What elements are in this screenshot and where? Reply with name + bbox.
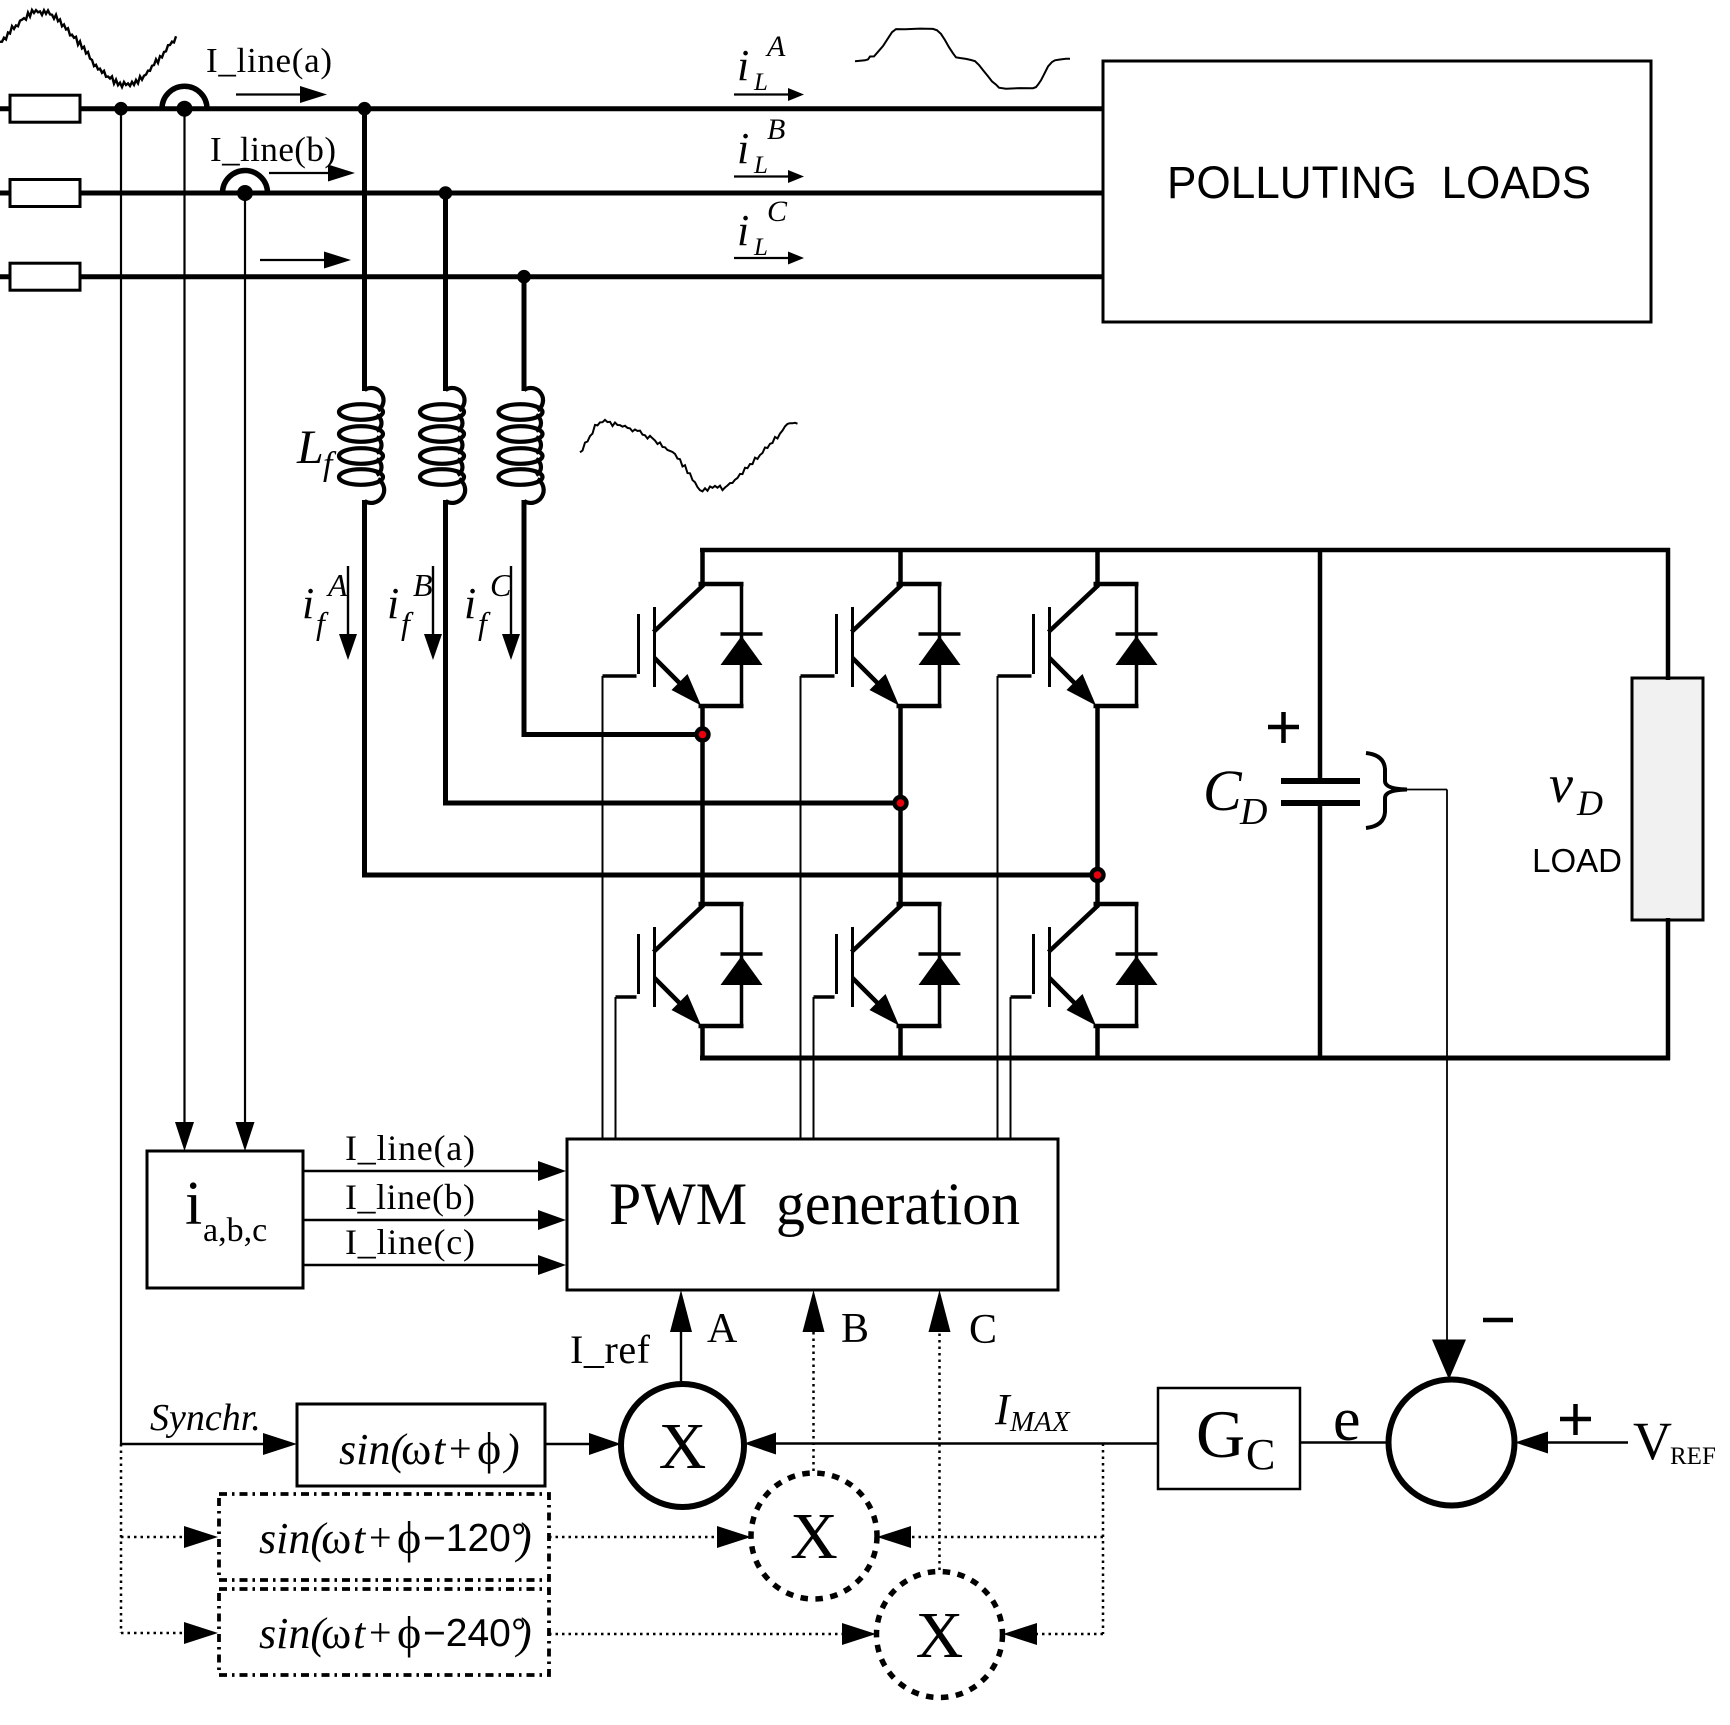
svg-text:I_line(a): I_line(a) (206, 41, 332, 80)
wire I_ref A into PWM (670, 1290, 692, 1383)
transistor IGBT Q3 (top) with antiparallel diode (1034, 584, 1158, 706)
node leg 3 midpoint (red) (1089, 867, 1105, 883)
resistor source impedance phase b (10, 180, 80, 207)
svg-text:ω: ω (321, 1607, 351, 1658)
node leg 2 midpoint (red) (892, 795, 908, 811)
svg-text:): ) (514, 1514, 532, 1563)
svg-text:A: A (707, 1306, 738, 1352)
summing junction circle (1389, 1380, 1515, 1506)
inductor Lf phase a (339, 388, 384, 503)
svg-text:t: t (353, 1514, 367, 1563)
svg-text:PWM generation: PWM generation (609, 1171, 1020, 1237)
gate wire top IGBT leg 1 (603, 674, 637, 678)
wire leg 2 middle (898, 704, 903, 906)
svg-text:L: L (296, 421, 324, 474)
label I_line(b) with arrow (210, 130, 355, 182)
block i_abc (147, 1151, 303, 1288)
resistor source impedance phase a (10, 95, 80, 122)
wire filter drop phase c (lower) (522, 500, 527, 735)
label vD (1549, 754, 1603, 823)
svg-text:ϕ: ϕ (397, 1512, 421, 1563)
svg-text:sin(: sin( (339, 1425, 407, 1474)
svg-text:I_line(a): I_line(a) (345, 1128, 475, 1168)
wire filter drop phase c (upper) (522, 277, 527, 391)
wire I_line(b) to PWM with arrow (303, 1177, 566, 1230)
wire Synchr into sin block (120, 1433, 297, 1455)
svg-text:): ) (502, 1425, 520, 1474)
wire leg 1 middle (700, 704, 705, 906)
wire synchronisation from phase a down (120, 109, 122, 1444)
svg-text:+: + (369, 1515, 392, 1560)
wire dotted synchr branch down (120, 1444, 123, 1633)
gate wire bottom IGBT leg 1 (616, 995, 637, 999)
svg-text:A: A (326, 567, 348, 603)
label plus (1560, 1404, 1591, 1435)
svg-text:i: i (302, 579, 314, 628)
wire I_line(a) to PWM with arrow (303, 1128, 566, 1181)
svg-text:i: i (464, 579, 476, 628)
svg-text:t: t (433, 1425, 447, 1474)
svg-text:i: i (185, 1170, 202, 1238)
wire leg 3 top stub (1095, 548, 1100, 586)
node leg 1 midpoint (red) (694, 726, 710, 742)
wire sin3 to multiplier X3 (dotted) (549, 1623, 876, 1645)
svg-text:D: D (1239, 791, 1267, 833)
node synchronisation tap on phase a (114, 102, 128, 116)
multiplier X3 (dotted) (877, 1572, 1003, 1698)
transistor IGBT Q6 (bottom) with antiparallel diode (1034, 904, 1158, 1026)
wire VREF into summing (1515, 1432, 1628, 1454)
transistor IGBT Q2 (top) with antiparallel diode (837, 584, 961, 706)
label i_L^B with arrow (734, 113, 804, 183)
svg-text:REF: REF (1670, 1443, 1716, 1470)
svg-text:LOAD: LOAD (1532, 842, 1622, 879)
svg-text:ω: ω (401, 1423, 431, 1474)
svg-text:D: D (1576, 783, 1603, 823)
label IMAX (994, 1385, 1071, 1438)
arrow vD into summing (minus) (1432, 1340, 1466, 1380)
inductor Lf phase b (420, 388, 465, 503)
current transformer CT on phase a (162, 86, 207, 116)
label Lf (296, 421, 337, 483)
svg-text:−120°: −120° (423, 1517, 526, 1560)
wire C into PWM (dotted) (929, 1290, 951, 1570)
block PWM generation (567, 1139, 1058, 1290)
svg-text:V: V (1633, 1411, 1672, 1471)
label + polarity (1268, 712, 1299, 743)
waveform: distorted source voltage sine (0, 10, 176, 87)
wire phase c to bridge leg 1 midpoint (522, 732, 703, 737)
svg-text:Synchr.: Synchr. (150, 1397, 261, 1439)
wire CT a to i_abc block (175, 109, 194, 1151)
svg-text:I_line(b): I_line(b) (345, 1177, 475, 1217)
svg-text:B: B (841, 1306, 869, 1352)
wire CT b to i_abc block (236, 193, 255, 1151)
transistor IGBT Q5 (bottom) with antiparallel diode (837, 904, 961, 1026)
svg-text:C: C (1246, 1430, 1275, 1479)
wire phase c line (0, 274, 1103, 279)
svg-text:X: X (659, 1410, 707, 1483)
wire leg 2 bottom stub (898, 1024, 903, 1058)
svg-text:X: X (916, 1599, 964, 1672)
svg-text:i: i (737, 41, 749, 90)
label i_f^A with arrow (302, 566, 357, 660)
svg-text:L: L (753, 69, 768, 96)
wire IMAX tap into X3 (dotted) (1003, 1623, 1103, 1645)
svg-text:X: X (790, 1500, 838, 1573)
wire sin2 to multiplier X2 (dotted) (549, 1526, 751, 1548)
svg-text:e: e (1333, 1386, 1361, 1454)
svg-text:MAX: MAX (1009, 1406, 1071, 1438)
capacitor CD branch wire (top) (1318, 550, 1323, 780)
wire I_line(c) to PWM with arrow (303, 1222, 566, 1275)
capacitor CD plates (1281, 778, 1360, 784)
wire filter drop phase b (lower) (443, 500, 448, 803)
wire e: summing to GC (1300, 1441, 1388, 1443)
label i_f^C with arrow (464, 566, 520, 660)
wire IMAX tap into X2 (dotted) (877, 1526, 1103, 1548)
wire IMAX into X1 (744, 1433, 1158, 1455)
label i_f^B with arrow (387, 566, 442, 660)
wire IMAX dotted vertical tap (1102, 1444, 1105, 1635)
inductor Lf phase c (499, 388, 544, 503)
resistor source impedance phase c (10, 263, 80, 290)
label I_line(a) with arrow (206, 41, 332, 103)
wire leg 2 top stub (898, 548, 903, 586)
wire load branch bottom (1666, 918, 1671, 1060)
multiplier X1 (621, 1384, 744, 1507)
label i_L^C with arrow (734, 195, 804, 265)
svg-text:C: C (1203, 758, 1243, 823)
svg-text:C: C (490, 567, 512, 603)
block POLLUTING LOADS (1103, 61, 1651, 322)
wire filter drop phase a (upper) (362, 109, 367, 391)
wire phase b to bridge leg 2 midpoint (443, 801, 901, 806)
label i_L^A with arrow (734, 30, 804, 101)
transistor IGBT Q4 (bottom) with antiparallel diode (639, 904, 763, 1026)
block sin(wt+phi-120) dotted (219, 1494, 549, 1580)
wire B into PWM (dotted) (803, 1290, 825, 1471)
gate wire bottom IGBT leg 2 (814, 995, 835, 999)
svg-text:A: A (765, 30, 786, 63)
label minus (1483, 1318, 1513, 1323)
wire DC negative bus (700, 1056, 1670, 1061)
svg-text:G: G (1196, 1396, 1245, 1472)
svg-text:i: i (737, 206, 749, 255)
wire filter drop phase a (lower) (362, 500, 367, 875)
arrow phase c current (260, 252, 351, 269)
svg-text:ϕ: ϕ (397, 1607, 421, 1658)
svg-text:+: + (449, 1426, 472, 1471)
transistor IGBT Q1 (top) with antiparallel diode (639, 584, 763, 706)
wire filter drop phase b (upper) (443, 193, 448, 391)
svg-text:B: B (413, 567, 433, 603)
waveform: filter current (580, 420, 798, 492)
wire phase a to bridge leg 3 midpoint (362, 873, 1098, 878)
node filter tap phase b (439, 186, 453, 200)
block sin(wt+phi) (297, 1404, 545, 1486)
svg-text:I_ref: I_ref (570, 1327, 651, 1372)
wire dotted into sin 240 block (121, 1622, 218, 1644)
wire leg 1 bottom stub (700, 1024, 705, 1058)
svg-text:POLLUTING LOADS: POLLUTING LOADS (1167, 157, 1591, 208)
node filter tap phase a (358, 102, 372, 116)
gate wire top IGBT leg 3 (998, 674, 1032, 678)
wire dotted into sin 120 block (121, 1526, 218, 1548)
svg-text:L: L (753, 152, 768, 179)
load resistor block (1632, 678, 1703, 920)
wire vD sense (1407, 789, 1447, 791)
svg-text:ϕ: ϕ (477, 1423, 501, 1474)
svg-text:+: + (369, 1610, 392, 1655)
waveform: polluting load current (quasi-square) (855, 29, 1070, 89)
multiplier X2 (dotted) (751, 1473, 877, 1599)
svg-text:i: i (387, 579, 399, 628)
svg-text:C: C (969, 1307, 997, 1353)
block sin(wt+phi-240) dotted (219, 1589, 549, 1675)
wire phase b line (0, 191, 1103, 196)
current transformer CT on phase b (223, 171, 268, 202)
svg-text:−240°: −240° (423, 1612, 526, 1655)
svg-text:B: B (767, 113, 785, 146)
wire sin1 to multiplier X1 (545, 1433, 621, 1455)
svg-text:v: v (1549, 754, 1573, 814)
block GC regulator (1158, 1388, 1300, 1489)
svg-text:I_line(c): I_line(c) (345, 1222, 475, 1262)
svg-text:C: C (767, 195, 788, 228)
wire phase a line (0, 106, 1103, 111)
svg-text:sin(: sin( (259, 1609, 327, 1658)
svg-text:ω: ω (321, 1512, 351, 1563)
gate wire bottom IGBT leg 3 (1011, 995, 1032, 999)
label CD (1203, 758, 1267, 833)
wire DC positive bus (700, 548, 1670, 553)
node filter tap phase c (517, 270, 531, 284)
brace vD measurement (1366, 753, 1407, 828)
wire load branch top (1666, 548, 1671, 680)
gate wire top IGBT leg 2 (801, 674, 835, 678)
svg-text:a,b,c: a,b,c (203, 1212, 267, 1249)
svg-text:): ) (514, 1609, 532, 1658)
label VREF (1633, 1411, 1716, 1471)
svg-text:I_line(b): I_line(b) (210, 130, 336, 169)
svg-text:t: t (353, 1609, 367, 1658)
svg-text:sin(: sin( (259, 1514, 327, 1563)
wire leg 1 top stub (700, 548, 705, 586)
wire leg 3 middle (1095, 704, 1100, 906)
capacitor CD branch wire (bottom) (1318, 804, 1323, 1058)
svg-text:i: i (737, 124, 749, 173)
wire leg 3 bottom stub (1095, 1024, 1100, 1058)
